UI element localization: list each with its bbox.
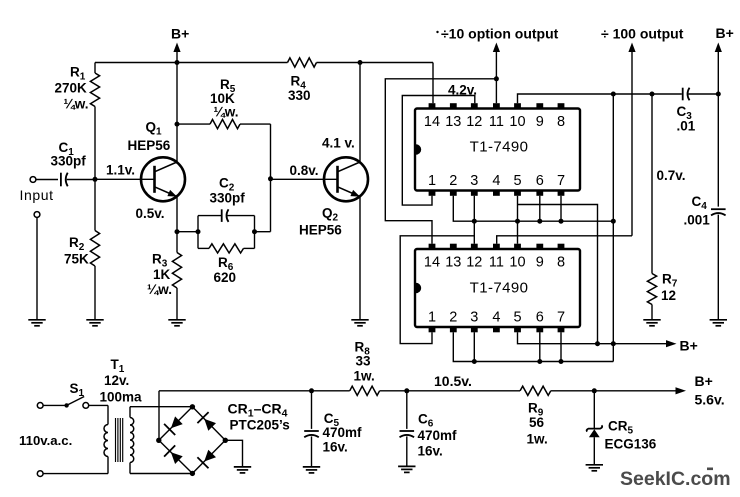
svg-text:7: 7 (557, 173, 565, 189)
svg-text:9: 9 (536, 255, 544, 271)
svg-text:¼w.: ¼w. (147, 282, 172, 297)
svg-text:ECG136: ECG136 (605, 437, 657, 452)
svg-text:0.7v.: 0.7v. (657, 168, 686, 183)
svg-text:1: 1 (428, 173, 436, 189)
svg-text:110v.a.c.: 110v.a.c. (19, 433, 72, 448)
svg-text:2: 2 (449, 173, 457, 189)
svg-text:13: 13 (445, 255, 461, 271)
svg-text:B+: B+ (680, 338, 698, 354)
svg-text:330pf: 330pf (51, 154, 87, 169)
svg-text:620: 620 (214, 270, 237, 285)
svg-text:T1-7490: T1-7490 (470, 280, 529, 297)
svg-text:¼w.: ¼w. (214, 105, 239, 120)
svg-text:÷10 option output: ÷10 option output (441, 26, 559, 42)
svg-text:100ma: 100ma (100, 390, 143, 405)
svg-text:4: 4 (492, 310, 500, 326)
svg-text:14: 14 (424, 255, 440, 271)
svg-text:56: 56 (529, 415, 545, 430)
svg-text:330: 330 (288, 88, 311, 103)
svg-text:5.6v.: 5.6v. (695, 392, 725, 408)
svg-text:T1-7490: T1-7490 (470, 139, 529, 156)
svg-text:12: 12 (466, 114, 482, 130)
svg-text:330pf: 330pf (210, 191, 246, 206)
svg-text:0.8v.: 0.8v. (290, 163, 319, 178)
svg-text:12: 12 (466, 255, 482, 271)
svg-text:470mf: 470mf (323, 425, 363, 440)
svg-text:470mf: 470mf (418, 428, 458, 443)
svg-text:1: 1 (428, 310, 436, 326)
svg-text:9: 9 (536, 114, 544, 130)
svg-text:HEP56: HEP56 (128, 138, 171, 153)
svg-text:12v.: 12v. (104, 373, 129, 388)
svg-text:16v.: 16v. (323, 440, 348, 455)
svg-text:SeekIC.com: SeekIC.com (620, 468, 731, 490)
svg-text:8: 8 (557, 114, 565, 130)
svg-text:.01: .01 (677, 119, 696, 134)
svg-text:75K: 75K (64, 252, 89, 267)
svg-text:2: 2 (449, 310, 457, 326)
svg-text:÷ 100 output: ÷ 100 output (601, 26, 684, 42)
svg-text:HEP56: HEP56 (299, 223, 342, 238)
svg-text:5: 5 (513, 310, 521, 326)
svg-text:11: 11 (489, 255, 504, 271)
svg-text:PTC205’s: PTC205’s (230, 418, 290, 433)
svg-text:16v.: 16v. (418, 444, 443, 459)
svg-text:7: 7 (557, 310, 565, 326)
svg-text:6: 6 (536, 310, 544, 326)
svg-text:1.1v.: 1.1v. (106, 163, 135, 178)
svg-text:.001: .001 (684, 213, 711, 228)
svg-text:12: 12 (661, 288, 676, 303)
svg-text:6: 6 (536, 173, 544, 189)
svg-text:270K: 270K (55, 81, 88, 96)
svg-text:4: 4 (492, 173, 500, 189)
svg-text:10: 10 (509, 114, 525, 130)
svg-text:B+: B+ (695, 373, 713, 389)
svg-text:13: 13 (445, 114, 461, 130)
svg-text:14: 14 (424, 114, 440, 130)
svg-text:4.2v.: 4.2v. (448, 83, 477, 98)
svg-text:Input: Input (20, 187, 54, 203)
svg-text:10: 10 (509, 255, 525, 271)
svg-text:5: 5 (513, 173, 521, 189)
svg-text:8: 8 (557, 255, 565, 271)
svg-text:¼w.: ¼w. (64, 97, 89, 112)
svg-text:B+: B+ (716, 25, 734, 41)
svg-text:1w.: 1w. (527, 432, 548, 447)
svg-text:B+: B+ (171, 26, 189, 42)
svg-text:1w.: 1w. (354, 369, 375, 384)
svg-text:4.1 v.: 4.1 v. (322, 136, 355, 151)
svg-text:11: 11 (489, 114, 504, 130)
svg-text:10.5v.: 10.5v. (434, 373, 472, 389)
svg-text:33: 33 (356, 354, 372, 369)
svg-text:0.5v.: 0.5v. (136, 206, 165, 221)
svg-text:3: 3 (470, 310, 478, 326)
svg-text:3: 3 (470, 173, 478, 189)
svg-text:1K: 1K (153, 267, 171, 282)
